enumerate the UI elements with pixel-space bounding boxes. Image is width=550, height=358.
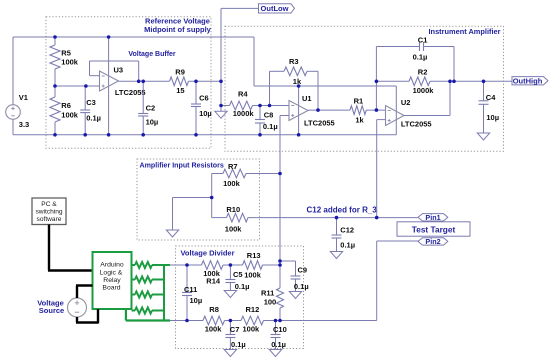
wire: midpoint node to U3 + input bbox=[55, 85, 100, 87]
svg-text:Relay: Relay bbox=[103, 277, 121, 284]
svg-text:Voltage Buffer: Voltage Buffer bbox=[128, 51, 176, 58]
wire: divider output branch to C9 bbox=[280, 260, 296, 262]
capacitor C3 0.1u bbox=[80, 86, 101, 135]
svg-text:0.1µ: 0.1µ bbox=[235, 282, 250, 291]
svg-text:0.1µ: 0.1µ bbox=[271, 340, 286, 349]
svg-text:software: software bbox=[37, 216, 62, 223]
svg-text:OutLow: OutLow bbox=[261, 4, 289, 13]
svg-text:0.1µ: 0.1µ bbox=[231, 340, 246, 349]
svg-text:C3: C3 bbox=[86, 98, 96, 107]
capacitor C9 0.1u bbox=[291, 266, 309, 292]
svg-text:Amplifier Input Resistors: Amplifier Input Resistors bbox=[140, 162, 224, 170]
resistor R2 1000k bbox=[409, 67, 434, 95]
svg-text:1000k: 1000k bbox=[413, 86, 435, 95]
wire: divider bottom row right to Pin2 drop bbox=[264, 320, 377, 322]
net flag Pin1 bbox=[418, 213, 448, 222]
relay resistor 4 bbox=[132, 308, 165, 314]
wire: R2 left stub bbox=[376, 80, 409, 82]
svg-text:U3: U3 bbox=[114, 66, 124, 75]
svg-text:R2: R2 bbox=[418, 67, 428, 76]
capacitor C11 10u bbox=[182, 265, 202, 321]
svg-text:R3: R3 bbox=[289, 57, 299, 66]
wire: U3 supply pins vertical bbox=[108, 37, 110, 135]
svg-text:R5: R5 bbox=[61, 48, 71, 57]
svg-text:C12 added for R_3: C12 added for R_3 bbox=[307, 205, 378, 214]
svg-text:U1: U1 bbox=[302, 94, 312, 103]
ground at reference node bbox=[215, 111, 227, 118]
wire: U3 feedback loop bbox=[90, 61, 139, 81]
wire: OutLow flag to reference node bbox=[221, 7, 259, 9]
wire: top supply rail from V1 bbox=[13, 36, 254, 38]
svg-text:LTC2055: LTC2055 bbox=[304, 119, 335, 128]
wire: voltage source - to arduino (black) bbox=[76, 317, 78, 323]
svg-text:R1: R1 bbox=[354, 97, 364, 106]
svg-text:switching: switching bbox=[35, 208, 62, 215]
resistor R9 15 bbox=[170, 68, 189, 95]
svg-text:LTC2055: LTC2055 bbox=[115, 88, 146, 97]
svg-text:R9: R9 bbox=[175, 68, 185, 77]
box: Test Target bbox=[397, 222, 470, 236]
box: PC & switching software bbox=[32, 198, 66, 225]
svg-text:Board: Board bbox=[102, 284, 120, 291]
resistor R6 100k bbox=[50, 86, 79, 135]
svg-text:C7: C7 bbox=[230, 325, 240, 334]
wire: R13 to divider output node bbox=[263, 264, 281, 266]
svg-text:10µ: 10µ bbox=[190, 296, 203, 305]
svg-text:100k: 100k bbox=[225, 224, 243, 233]
wire: green bottom feed bbox=[126, 319, 170, 321]
wire: R9 to OutLow node bbox=[189, 80, 222, 82]
svg-text:100k: 100k bbox=[223, 179, 241, 188]
ground below C5 bbox=[224, 291, 236, 298]
svg-text:0.1µ: 0.1µ bbox=[413, 52, 428, 61]
capacitor C2 10u bbox=[138, 81, 158, 135]
wire: R7/R10 left vertical bbox=[211, 174, 213, 218]
wire: bottom 0V rail bbox=[13, 134, 396, 136]
svg-text:10µ: 10µ bbox=[146, 117, 159, 126]
ground below C4 bbox=[477, 133, 489, 140]
svg-text:15: 15 bbox=[176, 86, 184, 95]
op-amp U2 LTC2055 bbox=[386, 98, 432, 129]
capacitor C5 0.1u bbox=[225, 265, 249, 291]
resistor R11 100 bbox=[261, 288, 284, 321]
svg-text:C6: C6 bbox=[199, 93, 209, 102]
dashed box: Instrument Amplifier bbox=[225, 26, 504, 151]
ground below C12 bbox=[330, 252, 342, 259]
svg-text:100k: 100k bbox=[61, 58, 79, 67]
resistor R3 1k (U1 feedback) bbox=[270, 57, 319, 110]
relay resistor 2 bbox=[132, 277, 165, 283]
wire: U2 supply pins vertical bbox=[395, 86, 397, 135]
dashed box: Voltage Divider bbox=[176, 246, 304, 349]
svg-text:0.1µ: 0.1µ bbox=[86, 114, 101, 123]
wire: R4 to U1 - input bbox=[253, 105, 290, 107]
wire: U1 supply pins vertical bbox=[298, 86, 300, 135]
svg-text:Instrument Amplifier: Instrument Amplifier bbox=[429, 27, 501, 36]
svg-text:Test Target: Test Target bbox=[412, 224, 456, 234]
voltage source: Voltage Source bbox=[37, 298, 86, 317]
svg-text:R4: R4 bbox=[238, 90, 248, 99]
dashed box: Amplifier Input Resistors bbox=[137, 159, 260, 240]
svg-text:C5: C5 bbox=[233, 270, 243, 279]
svg-text:100k: 100k bbox=[61, 110, 79, 119]
svg-text:C4: C4 bbox=[486, 93, 496, 102]
capacitor C4 10u bbox=[479, 81, 500, 133]
wire: U1 output row to R1 bbox=[308, 109, 350, 111]
wire: PC box to arduino (black) bbox=[48, 225, 50, 271]
svg-text:1k: 1k bbox=[355, 116, 364, 125]
svg-text:C12: C12 bbox=[340, 225, 354, 234]
svg-text:3.3: 3.3 bbox=[19, 120, 29, 129]
wire: instrument amp supply rail bbox=[254, 85, 396, 87]
voltage source V1 3.3 bbox=[6, 93, 30, 129]
svg-text:C9: C9 bbox=[298, 266, 308, 275]
wire: R7 right to divider sense vertical bbox=[246, 173, 280, 175]
resistor R8 100k bbox=[203, 305, 225, 334]
relay resistor 1 bbox=[132, 262, 165, 268]
resistor R13 100k bbox=[243, 251, 263, 279]
wire: supply drop at x=254 into instrument amp rail bbox=[253, 37, 255, 86]
wire: reference node to R4 bbox=[221, 105, 230, 107]
wire: green bus vertical bbox=[163, 265, 165, 321]
net flag OutLow bbox=[259, 4, 295, 13]
svg-text:R10: R10 bbox=[226, 205, 240, 214]
svg-text:100: 100 bbox=[264, 297, 277, 306]
resistor R4 1000k bbox=[230, 90, 255, 119]
ground below C10 bbox=[269, 350, 281, 357]
svg-text:100k: 100k bbox=[243, 325, 261, 334]
svg-text:R6: R6 bbox=[61, 101, 71, 110]
ground below C7 bbox=[224, 350, 236, 357]
svg-text:Source: Source bbox=[39, 306, 64, 315]
wire: U1 + input stub bbox=[280, 115, 289, 117]
net flag Pin2 bbox=[418, 237, 448, 246]
svg-text:R14: R14 bbox=[206, 276, 221, 285]
op-amp U1 LTC2055 bbox=[289, 94, 335, 128]
wire: U2 + input stub bbox=[377, 119, 386, 121]
svg-text:C10: C10 bbox=[273, 325, 287, 334]
wire: vertical from U1 + input down to voltage divider output bbox=[279, 116, 281, 289]
ground below C9 bbox=[289, 292, 301, 299]
svg-text:10µ: 10µ bbox=[486, 113, 499, 122]
svg-text:C1: C1 bbox=[418, 35, 428, 44]
svg-text:0.1µ: 0.1µ bbox=[340, 240, 355, 249]
resistor R14 100k bbox=[202, 261, 224, 286]
net flag OutHigh bbox=[512, 76, 548, 85]
resistor R1 1k bbox=[350, 97, 366, 125]
wire: R14 to R13 bbox=[223, 264, 243, 266]
svg-text:0.1µ: 0.1µ bbox=[294, 282, 309, 291]
svg-text:R13: R13 bbox=[247, 251, 261, 260]
svg-text:1000k: 1000k bbox=[233, 109, 255, 118]
wire: R10 output row to Pin1 bbox=[248, 217, 418, 219]
svg-text:10µ: 10µ bbox=[199, 109, 212, 118]
wire: green top feed to divider bbox=[164, 264, 170, 266]
wire: voltage source + to arduino (black) bbox=[76, 286, 78, 299]
capacitor C12 0.1u bbox=[332, 218, 356, 252]
wire: R1 to U2 - input bbox=[366, 109, 385, 111]
wire: R8 to R12 bbox=[225, 320, 242, 322]
svg-text:C11: C11 bbox=[184, 285, 197, 294]
wire: vertical from U2 + input to Pin1 row bbox=[376, 120, 378, 218]
wire: R2/OutHigh row bbox=[430, 80, 513, 82]
svg-text:Midpoint of supply: Midpoint of supply bbox=[144, 25, 211, 34]
wire: to ground branch bbox=[173, 197, 212, 199]
svg-text:C2: C2 bbox=[146, 103, 156, 112]
relay resistor 3 bbox=[132, 292, 165, 298]
svg-text:C8: C8 bbox=[264, 110, 274, 119]
capacitor C8 0.1u bbox=[255, 106, 278, 135]
svg-text:0.1µ: 0.1µ bbox=[263, 122, 278, 131]
svg-text:Logic &: Logic & bbox=[100, 269, 123, 276]
svg-text:U2: U2 bbox=[401, 98, 411, 107]
svg-text:Pin1: Pin1 bbox=[425, 213, 440, 222]
svg-text:Arduino: Arduino bbox=[100, 262, 124, 269]
svg-text:R7: R7 bbox=[228, 162, 238, 171]
svg-text:LTC2055: LTC2055 bbox=[401, 120, 432, 129]
resistor R7 100k bbox=[212, 162, 246, 188]
svg-text:100k: 100k bbox=[205, 325, 223, 334]
svg-text:Voltage Divider: Voltage Divider bbox=[180, 249, 234, 258]
ground in amplifier input resistors box bbox=[166, 230, 178, 237]
wire: divider bottom row left bbox=[170, 320, 203, 322]
capacitor C7 0.1u bbox=[225, 321, 245, 350]
svg-text:PC &: PC & bbox=[41, 201, 57, 208]
svg-text:OutHigh: OutHigh bbox=[513, 76, 543, 85]
wire: V1 bottom lead bbox=[12, 119, 14, 134]
dashed box: Reference Voltage / Midpoint of supply bbox=[46, 17, 212, 149]
op-amp U3 LTC2055 bbox=[100, 66, 146, 97]
svg-text:R11: R11 bbox=[261, 288, 274, 297]
wire: U2 output to OutHigh node bbox=[404, 115, 450, 117]
svg-text:R8: R8 bbox=[209, 305, 219, 314]
capacitor C6 10u bbox=[191, 81, 212, 135]
wire: Pin2 to divider bottom row bbox=[377, 240, 419, 242]
svg-text:100k: 100k bbox=[244, 270, 262, 279]
svg-text:Reference Voltage: Reference Voltage bbox=[145, 17, 210, 26]
wire: divider top row bbox=[170, 264, 202, 266]
wire: V1 top lead bbox=[12, 37, 14, 105]
capacitor C10 0.1u bbox=[271, 321, 287, 350]
box: Arduino Logic & Relay Board bbox=[93, 252, 132, 309]
wire: U3 output row bbox=[119, 80, 170, 82]
svg-text:Pin2: Pin2 bbox=[425, 237, 440, 246]
resistor R10 100k bbox=[212, 205, 248, 234]
resistor R12 100k bbox=[241, 305, 264, 334]
capacitor C1 0.1u bbox=[376, 35, 454, 110]
svg-text:R12: R12 bbox=[246, 305, 260, 314]
svg-text:V1: V1 bbox=[19, 93, 28, 102]
resistor R5 100k bbox=[50, 37, 79, 86]
wire: arduino bottom stub (green) bbox=[125, 309, 127, 321]
